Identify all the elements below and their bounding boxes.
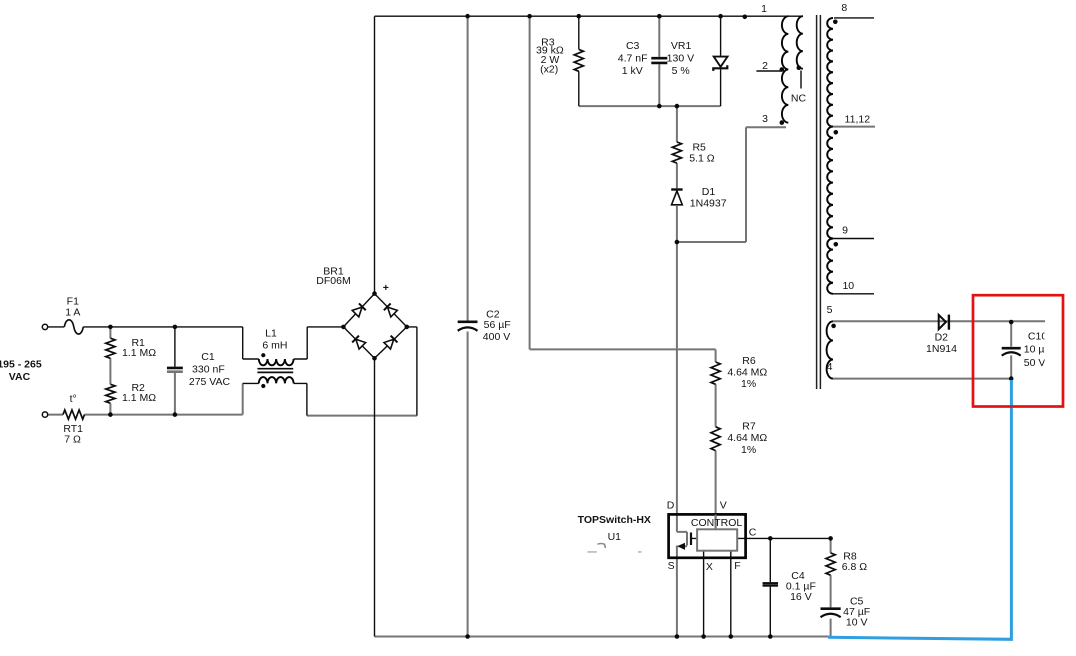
svg-text:10 V: 10 V [846, 617, 868, 629]
svg-text:16 V: 16 V [790, 591, 812, 603]
svg-text:NC: NC [791, 93, 807, 105]
svg-text:(x2): (x2) [540, 64, 558, 76]
svg-text:VAC: VAC [9, 371, 31, 383]
svg-text:C: C [749, 527, 757, 539]
svg-text:R7: R7 [742, 421, 756, 433]
svg-text:4.7 nF: 4.7 nF [618, 52, 648, 64]
svg-text:4.64 MΩ: 4.64 MΩ [727, 432, 767, 444]
svg-text:L1: L1 [265, 328, 277, 340]
svg-text:2: 2 [762, 60, 768, 72]
svg-text:t°: t° [70, 393, 77, 405]
svg-text:D1: D1 [702, 186, 716, 198]
svg-text:D2: D2 [935, 332, 949, 344]
svg-text:1N4937: 1N4937 [690, 198, 727, 210]
svg-text:5: 5 [827, 304, 833, 316]
svg-text:4.64 MΩ: 4.64 MΩ [727, 367, 767, 379]
svg-text:50 V: 50 V [1024, 357, 1046, 369]
svg-text:F: F [734, 560, 740, 572]
svg-text:1 A: 1 A [65, 307, 80, 319]
svg-text:DF06M: DF06M [316, 275, 350, 287]
svg-text:D: D [667, 499, 675, 511]
svg-text:8: 8 [841, 2, 847, 14]
svg-text:4: 4 [827, 361, 833, 373]
svg-text:1.1 MΩ: 1.1 MΩ [122, 347, 156, 359]
svg-text:6 mH: 6 mH [262, 339, 287, 351]
svg-text:C3: C3 [626, 40, 640, 52]
svg-text:1.1 MΩ: 1.1 MΩ [122, 392, 156, 404]
svg-text:1%: 1% [741, 444, 756, 456]
svg-text:400 V: 400 V [483, 331, 510, 343]
svg-text:1%: 1% [741, 378, 756, 390]
svg-text:6.8 Ω: 6.8 Ω [842, 561, 868, 573]
svg-text:1: 1 [761, 3, 767, 15]
svg-text:R6: R6 [742, 355, 756, 367]
svg-text:9: 9 [842, 225, 848, 237]
svg-text:275 VAC: 275 VAC [189, 376, 231, 388]
svg-text:56 µF: 56 µF [484, 319, 511, 331]
svg-text:3: 3 [762, 113, 768, 125]
svg-text:7 Ω: 7 Ω [64, 434, 81, 446]
svg-text:VR1: VR1 [671, 40, 692, 52]
svg-text:S: S [668, 560, 675, 572]
svg-text:R5: R5 [692, 142, 706, 154]
svg-text:330 nF: 330 nF [192, 363, 225, 375]
svg-text:TOPSwitch-HX: TOPSwitch-HX [578, 514, 651, 526]
svg-text:F1: F1 [67, 296, 79, 308]
svg-text:5.1 Ω: 5.1 Ω [689, 153, 715, 165]
svg-text:CONTROL: CONTROL [691, 517, 742, 529]
svg-text:11,12: 11,12 [845, 114, 871, 126]
svg-text:1N914: 1N914 [926, 343, 957, 355]
svg-text:5 %: 5 % [672, 65, 690, 77]
svg-text:130 V: 130 V [667, 52, 694, 64]
svg-text:U1: U1 [608, 531, 622, 543]
svg-text:10: 10 [842, 280, 854, 292]
svg-text:+: + [383, 282, 389, 294]
svg-text:C10: C10 [1028, 331, 1047, 343]
svg-text:V: V [720, 500, 727, 512]
svg-text:C1: C1 [201, 351, 215, 363]
svg-text:1 kV: 1 kV [622, 65, 643, 77]
svg-text:X: X [706, 561, 713, 573]
svg-text:195 - 265: 195 - 265 [0, 358, 42, 370]
